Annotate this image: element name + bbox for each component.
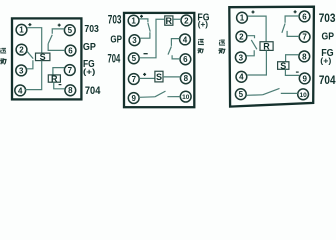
wire S coil right to pin8 [163,76,181,78]
pin 4 [236,71,247,82]
svg-text:704: 704 [108,53,121,65]
svg-text:7: 7 [302,33,307,42]
pin 2 [181,15,192,26]
svg-text:GP: GP [322,31,335,43]
svg-text:703: 703 [84,24,99,35]
wire pin3 contact riser [247,50,255,56]
pin 4 [180,34,191,45]
svg-text:704: 704 [319,75,336,87]
pin 1 [237,12,248,23]
polarity mark + (pin 6) [294,10,297,13]
svg-text:5: 5 [239,90,244,99]
svg-text:5: 5 [68,26,73,35]
svg-text:9: 9 [302,74,307,83]
svg-text:1: 1 [19,26,24,35]
pin 8 [299,51,310,62]
svg-text:7: 7 [68,66,73,75]
wire pin8 to S coil top [286,55,299,62]
vertical label (remote) right of diagram2, char 2 [197,48,203,53]
switch blade pin2 [27,51,33,58]
wire R coil left to pin5 [139,19,164,58]
svg-text:GP: GP [83,42,96,53]
pin 5 [64,25,75,36]
switch pins 4-6 [168,39,180,59]
coil R1 box [48,74,60,84]
vertical label (remote) left of diagram3, char 2 [218,48,225,53]
pin 3 [16,65,27,76]
polarity mark - (pin 9) [296,71,299,73]
wire S coil bottom to pin4 [25,61,42,90]
wire pin7 to R coil top [53,68,65,75]
svg-text:2: 2 [239,32,244,41]
polarity mark + (pin 1) [252,11,255,14]
svg-text:2: 2 [184,16,189,25]
svg-text:R: R [51,74,58,84]
pin 7 [64,65,75,76]
enclosure box 1 [12,18,81,99]
pin 10 [298,89,309,100]
svg-text:GP: GP [110,34,122,46]
svg-text:4: 4 [239,73,244,82]
polarity mark + (pin 5) [58,24,61,27]
polarity mark - (pin 5) [144,53,148,55]
svg-text:10: 10 [299,92,307,99]
svg-text:(+): (+) [198,19,208,29]
enclosure box 2 [124,13,194,107]
svg-text:4: 4 [18,86,23,95]
polarity mark + (pin 7) [143,73,146,76]
svg-text:7: 7 [132,75,137,84]
wire R coil bottom to pin8 [54,82,65,89]
pin 9 [299,73,310,84]
vertical label (remote) left of diagram1, char 2 [0,58,6,64]
wire pin3 contact riser [140,32,150,38]
pin 10 [180,91,191,102]
wire R coil bottom to pin4 [247,50,266,75]
coil S2 box [155,71,163,82]
svg-text:1: 1 [131,17,136,26]
vertical label (remote) left of diagram1, char 1 [0,48,6,53]
svg-text:8: 8 [68,86,73,95]
svg-text:8: 8 [302,52,307,61]
svg-text:3: 3 [19,66,24,75]
svg-text:(+): (+) [83,67,95,77]
switch pins 9-10 [139,91,180,97]
wire pin1 to R coil top [248,16,266,42]
pin 2 [16,44,27,55]
pin 5 [128,53,139,64]
pin 6 [65,45,76,56]
svg-text:3: 3 [132,36,137,45]
wire R coil right to pin2 [173,18,181,20]
svg-text:6: 6 [302,12,307,21]
pin 8 [180,73,191,84]
pin 8 [65,85,76,96]
svg-text:S: S [40,52,46,62]
svg-text:(+): (+) [320,56,331,66]
svg-text:2: 2 [19,46,24,55]
vertical label (remote) left of diagram3, char 1 [219,40,225,45]
wire pin1 to S coil top [27,28,42,53]
wire S coil bottom to pin9 [285,69,299,75]
svg-text:S: S [156,72,162,82]
wire pin7 to S coil [139,77,155,79]
polarity mark + (pin 1) [140,15,143,18]
svg-text:1: 1 [240,14,245,23]
svg-text:703: 703 [108,14,122,26]
svg-text:4: 4 [183,35,188,44]
vertical label (remote) right of diagram2, char 1 [198,39,204,44]
pin 3 [129,35,140,46]
switch blade pin2 [247,36,257,50]
svg-text:5: 5 [132,54,137,63]
pin 1 [128,15,139,26]
polarity mark + (pin 1) [28,23,31,26]
polarity mark - (pin 8) [59,84,62,86]
enclosure box 3 [229,7,314,107]
pin 2 [236,31,247,42]
svg-text:R: R [263,42,270,52]
switch pins 6-7 [282,16,299,36]
pin 6 [180,54,191,65]
svg-text:10: 10 [182,94,190,101]
coil S1 box [36,52,50,62]
coil R2 box [165,16,173,26]
wire pin3 contact [27,60,33,69]
svg-text:6: 6 [68,46,73,55]
switch pins 5-6 [48,29,65,51]
pin 7 [128,74,139,85]
pin 6 [299,11,310,22]
pin 3 [235,52,246,63]
svg-text:703: 703 [319,13,336,25]
pin 5 [235,89,246,100]
pin 9 [128,93,139,104]
svg-text:3: 3 [239,53,244,62]
pin 1 [16,24,27,35]
coil R3 box [260,42,273,52]
svg-text:8: 8 [184,74,189,83]
wire pin1 with switch blade to pin3 contact [139,19,150,32]
pin 7 [299,31,310,42]
coil S3 box [278,61,289,71]
svg-text:R: R [166,16,173,26]
svg-text:704: 704 [85,85,101,97]
switch pins 5-10 [246,88,298,95]
pin 4 [15,85,26,96]
svg-text:9: 9 [131,94,136,103]
svg-text:6: 6 [183,55,188,64]
